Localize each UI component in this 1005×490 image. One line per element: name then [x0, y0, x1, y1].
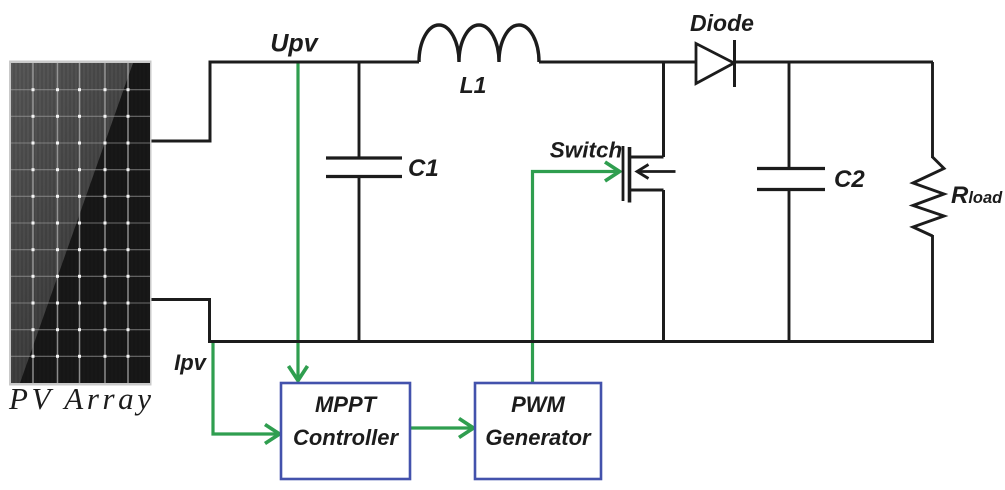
svg-text:Upv: Upv: [270, 30, 319, 58]
svg-text:L1: L1: [460, 72, 487, 98]
capacitor C1: [326, 62, 402, 342]
svg-text:Switch: Switch: [550, 138, 623, 163]
svg-text:Diode: Diode: [690, 10, 754, 36]
box: PWM Generator: [475, 383, 601, 479]
wire: right rail lower: [931, 235, 934, 342]
resistor Rload: [913, 157, 944, 236]
svg-text:Controller: Controller: [293, 425, 400, 450]
svg-text:C1: C1: [408, 155, 439, 182]
PV array panel: [9, 61, 152, 386]
wire: bottom rail: [208, 340, 934, 343]
svg-text:Ipv: Ipv: [174, 350, 208, 375]
svg-text:PWM: PWM: [511, 392, 565, 417]
diode D1: [696, 40, 735, 87]
wire: top rail middle segment: [539, 61, 697, 64]
svg-text:PV Array: PV Array: [8, 381, 155, 416]
capacitor C2: [757, 62, 825, 342]
svg-text:MPPT: MPPT: [315, 392, 378, 417]
wire: green Ipv sense line from bottom rail to MPPT controller: [213, 342, 280, 444]
wire: top rail right segment: [733, 61, 933, 64]
svg-text:Generator: Generator: [485, 425, 592, 450]
box: MPPT Controller: [281, 383, 410, 479]
wire: green MPPT to PWM arrow: [411, 419, 474, 438]
wire: green Upv sense line down to MPPT controller: [289, 63, 308, 381]
wire: top rail left segment: [209, 61, 420, 64]
transistor Q1 (MOSFET switch): [623, 62, 676, 342]
wire: green PWM gate drive line to MOSFET gate: [533, 162, 620, 382]
svg-text:C2: C2: [834, 166, 865, 193]
wire: PV array top output wire: [149, 62, 210, 141]
svg-text:Rload: Rload: [951, 182, 1003, 209]
wire: PV array bottom output wire: [149, 300, 210, 342]
inductor L1: [419, 25, 539, 62]
wire: right rail upper: [931, 62, 934, 158]
